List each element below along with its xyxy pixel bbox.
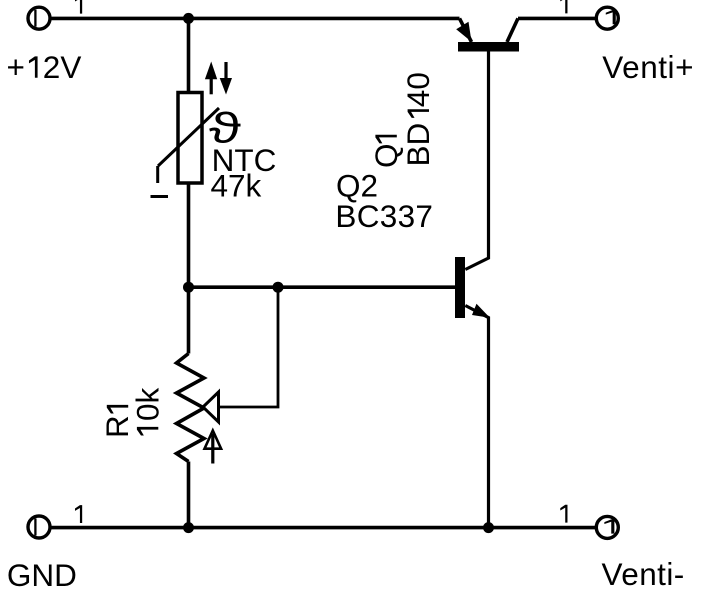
svg-text:BD: BD (400, 123, 436, 167)
svg-text:Venti-: Venti- (602, 556, 685, 592)
svg-text:BC337: BC337 (335, 198, 433, 234)
svg-text:2V: 2V (43, 49, 82, 85)
svg-text:0k: 0k (129, 387, 165, 421)
svg-text:Q: Q (368, 143, 404, 168)
svg-text:+: + (7, 49, 25, 85)
svg-text:40: 40 (400, 72, 436, 107)
svg-text:GND: GND (7, 557, 77, 593)
svg-text:Venti+: Venti+ (602, 49, 694, 85)
svg-text:47k: 47k (211, 168, 262, 204)
